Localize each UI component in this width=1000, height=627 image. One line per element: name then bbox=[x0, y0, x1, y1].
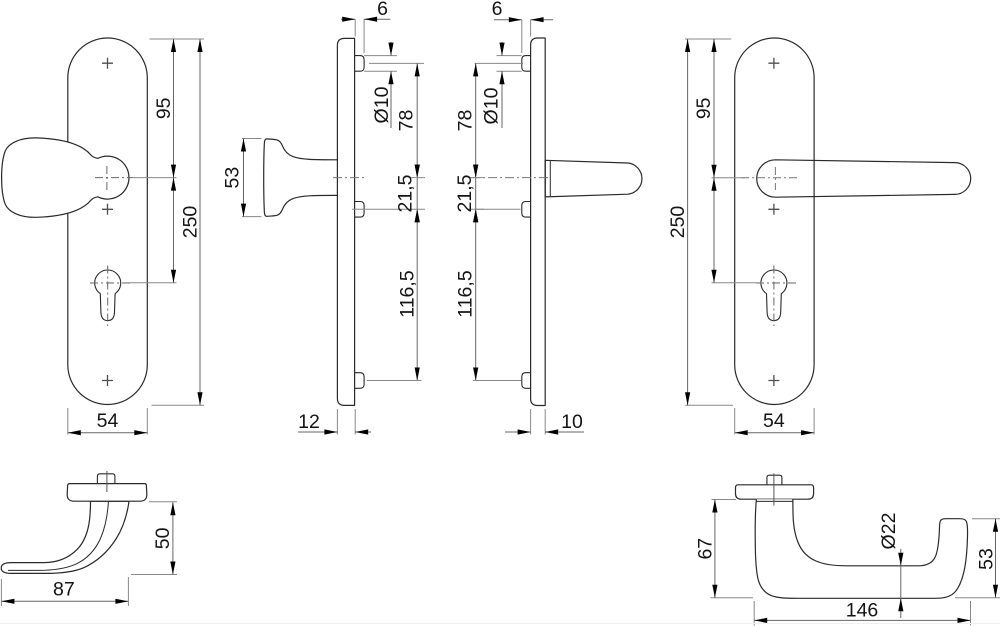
screw mark bottom v4 bbox=[768, 375, 779, 386]
dim line 54 bbox=[68, 432, 148, 434]
svg-text:95: 95 bbox=[153, 97, 175, 119]
extension line plate top bbox=[150, 38, 205, 40]
dim 53 extension lines f6 bbox=[955, 519, 1000, 598]
screw boss middle bbox=[355, 202, 365, 218]
knob profile (head and neck) bbox=[264, 139, 338, 216]
extension line plate bottom bbox=[152, 404, 205, 406]
centre line f5 bbox=[106, 471, 108, 492]
screw boss middle v3 bbox=[522, 202, 531, 218]
dim 6 extension lines v3 bbox=[522, 20, 531, 53]
dim 21,5 outside arrows view2 bbox=[415, 165, 420, 178]
extension line keyhole centre v4 bbox=[712, 282, 763, 284]
svg-text:Ø10: Ø10 bbox=[371, 86, 393, 123]
dim 87 extension lines bbox=[1, 577, 128, 606]
faint page rule bbox=[0, 623, 1000, 625]
svg-text:116,5: 116,5 bbox=[454, 270, 476, 318]
dim line 95 v4 bbox=[713, 39, 715, 283]
svg-text:Ø22: Ø22 bbox=[878, 513, 900, 550]
handle U grip f6 bbox=[755, 499, 967, 598]
extension line plate top v4 bbox=[685, 38, 731, 40]
screw boss top v3 bbox=[522, 56, 531, 72]
dim 6 extension lines bbox=[355, 19, 364, 53]
middle screw axis line view2 bbox=[352, 208, 409, 210]
centre tick and screw tick view2 bbox=[409, 178, 425, 210]
screw mark middle v4 bbox=[768, 204, 779, 215]
dim line 67 bbox=[714, 500, 716, 598]
centre tick and screw tick v3 bbox=[468, 178, 484, 210]
top screw axis line v3 bbox=[475, 62, 523, 64]
svg-text:54: 54 bbox=[763, 410, 785, 432]
boss top edge extension lines bbox=[364, 56, 397, 72]
lever neck line v3 bbox=[549, 160, 551, 196]
svg-text:250: 250 bbox=[180, 206, 202, 239]
svg-text:21,5: 21,5 bbox=[395, 174, 417, 212]
dim line 54 v4 bbox=[735, 432, 814, 434]
middle screw axis line v3 bbox=[476, 208, 521, 210]
screw mark top bbox=[102, 58, 113, 69]
dim line D22 bbox=[900, 549, 902, 618]
dim line 50 bbox=[172, 502, 174, 574]
dim line 53 view2 bbox=[243, 139, 245, 217]
dim 53 extension lines view2 bbox=[242, 139, 262, 217]
screw mark top v4 bbox=[768, 58, 779, 69]
plate profile bar v3 bbox=[531, 38, 546, 406]
svg-text:6: 6 bbox=[492, 0, 503, 20]
lever grip profile v3 bbox=[545, 160, 642, 197]
svg-text:10: 10 bbox=[561, 411, 583, 433]
spindle stub f6 bbox=[767, 475, 782, 485]
cap f6 bbox=[736, 485, 814, 499]
svg-text:146: 146 bbox=[846, 600, 879, 622]
dim line 146 bbox=[754, 619, 970, 621]
svg-text:54: 54 bbox=[97, 410, 119, 432]
boss edge extension lines v3 bbox=[497, 56, 522, 72]
dim 67 extension lines bbox=[710, 500, 753, 598]
svg-text:53: 53 bbox=[222, 167, 244, 189]
extension lines 54 bbox=[68, 408, 148, 435]
dim line 6 v3 bbox=[494, 19, 553, 21]
svg-text:6: 6 bbox=[377, 0, 388, 20]
plate (long plate, front) bbox=[68, 38, 148, 405]
dim line 95 bbox=[173, 39, 175, 283]
dim line 10 bbox=[505, 431, 584, 433]
lever handle front bbox=[757, 160, 971, 197]
handle grip curve f5 bbox=[1, 501, 129, 573]
dim line 250 bbox=[199, 39, 201, 405]
plate (long plate, front) v4 bbox=[735, 38, 814, 405]
extension line plate bottom v4 bbox=[685, 404, 733, 406]
dim line 53 f6 bbox=[995, 519, 997, 598]
dim line D10 view2 bbox=[390, 42, 392, 128]
bottom screw axis line view2 bbox=[367, 380, 422, 382]
dim 21,5 outside arrows v3 bbox=[473, 165, 478, 178]
dim line 78 view2 bbox=[416, 63, 418, 380]
dim line 6 bbox=[341, 18, 390, 20]
spindle stub f5 bbox=[97, 474, 115, 485]
screw boss bottom bbox=[355, 373, 365, 389]
svg-text:21,5: 21,5 bbox=[454, 174, 476, 212]
screw boss top bbox=[355, 56, 365, 72]
screw mark bottom bbox=[102, 375, 113, 386]
grip inner contour f5 bbox=[8, 501, 108, 570]
dim 12 extension lines bbox=[337, 409, 355, 435]
svg-text:Ø10: Ø10 bbox=[481, 87, 503, 124]
dim 10 extension lines bbox=[531, 409, 546, 435]
keyhole cylinder v4 bbox=[761, 270, 787, 321]
centre dash-dot line view2 bbox=[333, 177, 367, 179]
svg-text:67: 67 bbox=[695, 538, 717, 560]
dim line D10 v3 bbox=[501, 42, 503, 128]
extension line knob centre to dim bbox=[133, 177, 177, 179]
dim line 12 bbox=[298, 431, 371, 433]
dim line 250 v4 bbox=[687, 39, 689, 405]
svg-text:78: 78 bbox=[454, 110, 476, 132]
plate edge through lever v3 bbox=[544, 160, 546, 197]
dim line 116,5 v3 bbox=[473, 209, 478, 222]
dim line 87 bbox=[1, 600, 128, 602]
bottom screw axis line v3 bbox=[473, 380, 522, 382]
screw mark middle bbox=[102, 204, 113, 215]
extension line keyhole centre to dim bbox=[126, 282, 177, 284]
svg-text:78: 78 bbox=[396, 110, 418, 132]
svg-text:87: 87 bbox=[53, 579, 75, 601]
dim line 78 v3 bbox=[475, 63, 477, 380]
svg-text:95: 95 bbox=[693, 97, 715, 119]
neck shoulder line f6 bbox=[756, 500, 792, 502]
svg-text:116,5: 116,5 bbox=[397, 270, 419, 318]
dim 50 extension lines bbox=[131, 502, 177, 575]
plate edge through lever v4 bbox=[813, 160, 815, 197]
dim line 116,5 view2 bbox=[415, 209, 420, 222]
svg-text:50: 50 bbox=[152, 527, 174, 549]
extension line lever centre v4 bbox=[712, 177, 746, 179]
svg-text:53: 53 bbox=[976, 548, 998, 570]
knob front outline bbox=[2, 138, 129, 217]
cap f5 bbox=[67, 484, 147, 502]
plate profile bar bbox=[337, 38, 354, 405]
svg-text:250: 250 bbox=[667, 206, 689, 239]
screw boss bottom v3 bbox=[522, 373, 531, 389]
keyhole dash cross v4 bbox=[756, 282, 797, 284]
knob centre dash-dot cross bbox=[95, 177, 133, 179]
keyhole cylinder bbox=[95, 270, 121, 321]
keyhole dash cross bbox=[90, 282, 131, 284]
lever centre dash-dot cross v4 bbox=[741, 177, 798, 179]
top screw axis line view2 bbox=[369, 62, 424, 64]
dim 146 extension lines bbox=[754, 601, 970, 626]
centre line f6 bbox=[773, 473, 775, 505]
centre dash-dot line v3 bbox=[471, 177, 551, 179]
svg-text:12: 12 bbox=[298, 411, 320, 433]
extension lines 54 v4 bbox=[735, 408, 814, 435]
